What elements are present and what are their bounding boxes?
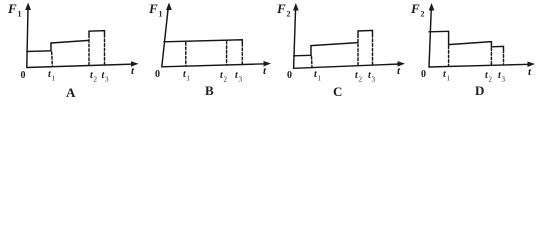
panel C step-up at t1 xyxy=(310,46,312,56)
svg-text:C: C xyxy=(333,84,342,99)
panel D y-axis arrowhead xyxy=(429,3,435,11)
panel C mid step segment t1 to t2 xyxy=(311,43,358,46)
svg-text:0: 0 xyxy=(21,70,26,81)
svg-text:F: F xyxy=(148,1,158,16)
panel A dashed side at t2 xyxy=(88,35,90,66)
svg-text:2: 2 xyxy=(224,76,228,84)
panel D dashed marker at t3 xyxy=(503,50,505,65)
svg-text:2: 2 xyxy=(489,76,493,84)
panel A y-axis arrowhead xyxy=(25,3,31,11)
svg-text:3: 3 xyxy=(105,76,109,84)
panel D y-axis xyxy=(429,8,431,67)
panel A x-axis xyxy=(27,64,133,67)
svg-text:1: 1 xyxy=(187,75,191,83)
svg-text:A: A xyxy=(66,85,76,100)
svg-text:1: 1 xyxy=(318,75,322,83)
panel D dashed marker at t1 xyxy=(448,46,450,66)
svg-text:t: t xyxy=(131,65,135,77)
svg-text:0: 0 xyxy=(155,69,160,80)
panel B y-axis xyxy=(162,8,168,67)
svg-text:3: 3 xyxy=(239,76,243,84)
svg-text:t: t xyxy=(528,66,532,78)
panel C low step segment 0 to t1 xyxy=(294,54,311,57)
panel C x-axis xyxy=(294,64,400,68)
panel B dashed marker at t2 xyxy=(226,41,228,65)
svg-text:t: t xyxy=(397,65,401,77)
svg-text:t: t xyxy=(263,65,267,77)
svg-text:F: F xyxy=(7,1,17,16)
svg-text:3: 3 xyxy=(372,76,376,84)
panel C y-axis xyxy=(294,8,296,68)
panel C dashed side at t2 xyxy=(357,35,359,67)
svg-text:0: 0 xyxy=(287,70,292,81)
panel D low step t2 to t3 xyxy=(491,46,503,49)
panel C dashed marker at t1 xyxy=(311,57,314,68)
panel A dashed side at t3 xyxy=(104,35,106,66)
panel D dashed marker at t2 xyxy=(490,48,492,65)
panel B x-axis xyxy=(162,64,266,67)
panel C x-axis arrowhead xyxy=(398,61,406,67)
svg-text:1: 1 xyxy=(159,10,163,19)
svg-text:2: 2 xyxy=(421,10,425,19)
svg-text:F: F xyxy=(276,1,286,16)
panel D high step 0 to t1 xyxy=(429,30,449,33)
panel B x-axis arrowhead xyxy=(264,61,272,67)
panel A x-axis arrowhead xyxy=(131,61,139,67)
panel D step-down at t1 xyxy=(448,31,450,44)
svg-text:D: D xyxy=(475,83,484,98)
svg-text:B: B xyxy=(205,83,214,98)
svg-text:F: F xyxy=(410,1,420,16)
svg-text:1: 1 xyxy=(52,75,56,83)
svg-text:1: 1 xyxy=(447,75,451,83)
svg-text:1: 1 xyxy=(18,10,22,19)
panel A step-up at t1 xyxy=(50,43,52,51)
panel A mid step segment t1 to t2 xyxy=(51,40,89,43)
panel C top step t2 to t3 xyxy=(358,30,373,34)
panel A dashed marker at t1 xyxy=(51,52,54,66)
svg-text:3: 3 xyxy=(502,76,506,84)
panel B dashed marker at t3 xyxy=(241,44,243,65)
panel A top step t2 to t3 xyxy=(89,31,105,35)
svg-text:2: 2 xyxy=(287,10,291,19)
panel B constant step 0 to t3 xyxy=(164,40,242,43)
svg-text:2: 2 xyxy=(359,76,363,84)
panel D step-down at t2 xyxy=(490,42,492,47)
panel D mid step t1 to t2 xyxy=(449,42,492,45)
svg-text:2: 2 xyxy=(94,76,98,84)
panel D x-axis xyxy=(429,64,530,67)
panel C y-axis arrowhead xyxy=(293,3,299,11)
panel A low step segment 0 to t1 xyxy=(27,50,51,53)
panel C dashed side at t3 xyxy=(372,35,374,67)
panel B y-axis arrowhead xyxy=(166,3,172,11)
panel D x-axis arrowhead xyxy=(528,62,536,68)
panel B dashed marker at t1 xyxy=(185,43,187,67)
svg-text:0: 0 xyxy=(421,69,426,80)
panel A y-axis xyxy=(27,8,28,68)
